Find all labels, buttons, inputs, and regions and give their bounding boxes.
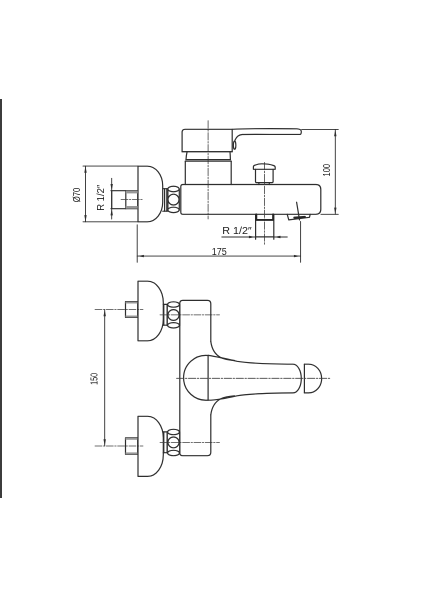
lever shaft <box>208 355 301 400</box>
top nut centerline <box>160 314 220 316</box>
cartridge collar <box>185 160 231 162</box>
escutcheon (wall rose) <box>138 166 163 222</box>
lever elbow end loop <box>233 141 236 149</box>
dim 175 line <box>137 255 300 257</box>
svg-text:R 1/2″: R 1/2″ <box>222 226 252 237</box>
dim 175 extension lines <box>136 225 138 262</box>
dim 150 line <box>104 310 106 446</box>
lever arm <box>232 129 301 142</box>
dim R 1/2 outlet arrows <box>249 236 256 238</box>
nipple centerline <box>121 199 143 201</box>
hub circle <box>184 355 209 400</box>
thread divider <box>125 191 127 209</box>
diverter knob centerline <box>264 162 266 244</box>
dim R 1/2 arrows (outside) <box>111 184 113 191</box>
cartridge centerline <box>207 121 209 219</box>
spout diagonal <box>297 202 300 220</box>
union nut <box>168 186 179 192</box>
bottom union nut <box>168 429 180 434</box>
bottom nut centerline <box>160 441 220 443</box>
dim Ø70 line <box>85 166 87 222</box>
top escutcheon dome <box>138 281 163 341</box>
svg-text:Ø70: Ø70 <box>72 187 83 202</box>
lever centerline <box>177 377 332 379</box>
dim 150 arrows <box>104 310 106 317</box>
top union nut <box>168 302 180 307</box>
top thread centerline / ext <box>95 309 143 311</box>
outlet thread shading (thick U) <box>256 214 273 220</box>
dim Ø70 extension lines <box>83 165 138 167</box>
spout <box>287 214 310 220</box>
top washer <box>163 304 165 325</box>
top wall thread <box>126 302 138 318</box>
svg-text:100: 100 <box>322 164 333 177</box>
thread shading bands <box>126 191 138 194</box>
dim 100 extension lines <box>302 128 339 130</box>
bottom wall thread <box>126 438 138 454</box>
svg-text:175: 175 <box>212 247 227 258</box>
dim 175 arrows <box>137 255 144 257</box>
dim Ø70 arrows <box>84 166 86 173</box>
bottom washer <box>163 432 165 453</box>
body column <box>180 300 211 455</box>
dim 100 arrows <box>334 130 336 137</box>
faucet body <box>181 185 321 215</box>
hub chord <box>207 355 209 400</box>
knob foot ticks <box>258 183 260 185</box>
fillet top <box>211 342 235 361</box>
dim R 1/2 (outlet) lines <box>222 236 256 238</box>
fillet bottom <box>211 396 235 415</box>
diverter knob stem <box>256 169 274 182</box>
base bottom / ring taper <box>182 151 232 153</box>
bottom escutcheon dome <box>138 416 163 476</box>
svg-text:R 1/2″: R 1/2″ <box>96 184 107 210</box>
wall thread nipple R 1/2 <box>112 191 138 209</box>
dim R 1/2 (wall thread) line <box>111 178 113 219</box>
svg-text:150: 150 <box>89 373 100 385</box>
connector washer <box>164 189 166 212</box>
lever ball end <box>303 364 305 393</box>
dim 100 line <box>334 130 336 215</box>
handle base cap <box>182 129 232 151</box>
bottom thread centerline / ext <box>95 445 143 447</box>
diverter knob cap <box>253 164 275 170</box>
bottom outlet <box>255 214 257 239</box>
page edge border line <box>0 99 2 498</box>
spout aerator dark mark <box>294 216 305 219</box>
